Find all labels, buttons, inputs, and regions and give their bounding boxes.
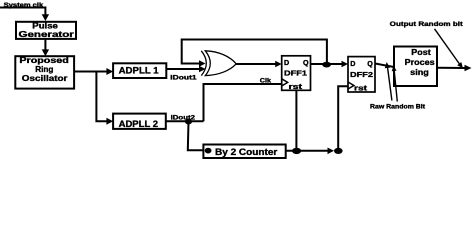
wire riser to DFF2 clock input: [338, 86, 348, 151]
arrowhead into XOR lower input: [199, 66, 206, 73]
pin clock triangle DFF2: [348, 82, 354, 89]
block U7 By 2 Counter: [203, 145, 285, 159]
svg-text:DFF1: DFF1: [284, 69, 308, 78]
arrowhead into DFF1 D: [275, 61, 282, 68]
svg-text:Post: Post: [411, 47, 431, 57]
annotation arrow raw random bit 1: [388, 67, 392, 101]
block U2 Proposed Ring Oscillator: [15, 56, 74, 89]
wire IDout1 from ADPLL1 to XOR lower input: [166, 68, 200, 70]
svg-text:ADPLL 2: ADPLL 2: [119, 119, 158, 130]
arrowhead into Pulse Generator: [42, 14, 49, 21]
wire rst riser to DFF1 bottom: [295, 90, 297, 151]
junction node on IDout2 wire: [185, 119, 192, 125]
wire Post Processing output: [437, 67, 465, 69]
wire ring oscillator output to ADPLL1: [74, 71, 108, 73]
svg-text:ADPLL 1: ADPLL 1: [119, 65, 160, 76]
gate XOR U5: [201, 51, 236, 76]
svg-text:Clk: Clk: [260, 77, 272, 84]
wire feedback from DFF1 Q node up and around to XOR upper input: [182, 40, 327, 65]
arrowhead into XOR upper input: [199, 60, 206, 67]
wire branch down to ADPLL2: [96, 72, 107, 122]
arrowhead into Ring Oscillator: [42, 49, 49, 56]
svg-text:Q: Q: [367, 59, 373, 68]
block DFF1: [282, 56, 311, 91]
svg-text:IDout1: IDout1: [170, 75, 197, 82]
svg-text:Proces: Proces: [405, 57, 435, 67]
arrowhead output: [465, 65, 472, 72]
svg-text:Proposed: Proposed: [19, 56, 69, 65]
junction node at counter input: [205, 148, 212, 154]
block U4 ADPLL 2: [113, 114, 166, 130]
wire Clk from IDout2 riser to DFF1 clock input: [204, 84, 282, 121]
svg-text:Output Random bit: Output Random bit: [390, 21, 464, 28]
svg-text:Q: Q: [303, 58, 309, 67]
wire pulse generator to ring oscillator: [44, 39, 46, 50]
block DFF2: [348, 57, 375, 93]
svg-text:rst: rst: [354, 86, 368, 93]
annotation arrow raw random bit 2: [394, 71, 397, 102]
svg-text:DFF2: DFF2: [350, 70, 373, 79]
wire system clk from left edge to pulse generator: [0, 8, 45, 16]
svg-text:Ring: Ring: [35, 65, 53, 74]
block U3 ADPLL 1: [113, 63, 166, 78]
annotation arrow output random bit: [435, 29, 460, 64]
arrowhead into ADPLL2: [106, 118, 113, 125]
svg-text:D: D: [350, 59, 355, 68]
svg-text:rst: rst: [289, 84, 304, 91]
svg-text:By 2 Counter: By 2 Counter: [215, 147, 278, 157]
block U6 Post Processing: [394, 47, 437, 87]
arrowhead on counter output before DFF2 tap: [328, 148, 335, 155]
junction node counter output DFF1 tap: [292, 148, 301, 154]
block U1 Pulse Generator: [16, 22, 76, 39]
junction node counter output DFF2 tap: [334, 148, 343, 154]
wire By 2 Counter output to reset/clock taps: [286, 150, 329, 152]
svg-text:Raw Random Bit: Raw Random Bit: [370, 104, 426, 111]
wire XOR output to DFF1 D: [236, 63, 277, 65]
wire IDout2 branch down to By 2 Counter: [188, 122, 204, 151]
junction node at DFF1 Q feedback tap: [322, 62, 331, 68]
svg-text:D: D: [284, 58, 289, 67]
wire DFF2 Q to Post Processing: [375, 64, 394, 68]
svg-text:sing: sing: [410, 67, 429, 77]
wire DFF1 Q to DFF2 D: [311, 63, 343, 65]
wire IDout2 from ADPLL2 to riser: [166, 120, 204, 122]
svg-text:Generator: Generator: [19, 30, 74, 39]
pin clock triangle DFF1: [282, 79, 288, 86]
svg-text:Oscillator: Oscillator: [22, 74, 68, 83]
arrowhead into DFF2 D: [342, 61, 349, 68]
arrowhead into ADPLL1: [106, 68, 113, 75]
